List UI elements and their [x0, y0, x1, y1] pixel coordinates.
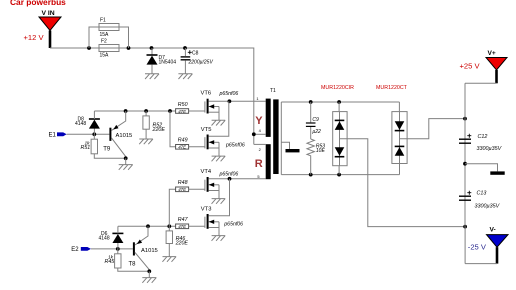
- wire +25V net: [400, 117, 467, 139]
- resistor R51 1k: [81, 134, 126, 158]
- power output V- -25V: [465, 227, 508, 264]
- svg-text:+25 V: +25 V: [460, 62, 481, 71]
- svg-text:E1: E1: [49, 132, 57, 138]
- transistor T9 A1015: [103, 111, 133, 170]
- transformer T1 pin numbers: [256, 96, 261, 179]
- svg-text:R: R: [255, 158, 263, 170]
- svg-text:+12 V: +12 V: [24, 33, 45, 42]
- svg-text:4: 4: [259, 128, 262, 133]
- wire secondary bottom: [281, 173, 399, 177]
- transformer T1 core: [273, 99, 278, 174]
- diode D8 4148: [75, 111, 100, 134]
- svg-text:F2: F2: [101, 39, 107, 45]
- svg-text:VT5: VT5: [201, 127, 212, 133]
- wire gate drive 1: [94, 109, 175, 147]
- diode D6 4148: [99, 226, 124, 249]
- rectifier D MUR1220CIR: [333, 102, 347, 175]
- resistor R47 47E: [176, 217, 189, 229]
- svg-text:1N5404: 1N5404: [159, 60, 177, 66]
- svg-text:3300µ35V: 3300µ35V: [475, 204, 501, 210]
- resistor R48 47E: [176, 180, 189, 192]
- svg-text:10E: 10E: [316, 148, 326, 154]
- transistor VT4 p65nf06: [201, 169, 239, 204]
- title Car powerbus: [10, 0, 66, 7]
- transformer T1 primary winding R: [255, 144, 271, 179]
- svg-text:C12: C12: [478, 134, 488, 140]
- wire VT3 drain: [209, 179, 230, 216]
- svg-text:R51: R51: [81, 145, 91, 151]
- svg-text:5: 5: [257, 174, 259, 179]
- transformer T1 label: [270, 88, 276, 94]
- svg-text:F1: F1: [100, 18, 106, 24]
- svg-text:2: 2: [259, 147, 261, 152]
- svg-text:R47: R47: [178, 217, 189, 223]
- svg-text:15A: 15A: [100, 32, 110, 38]
- power input V IN +12V: [24, 10, 62, 48]
- wire R49 to VT5 gate: [189, 146, 205, 148]
- svg-text:1: 1: [256, 96, 258, 101]
- svg-text:4148: 4148: [99, 236, 110, 242]
- svg-text:-25 V: -25 V: [468, 243, 487, 252]
- transformer T1 primary winding Y: [255, 99, 271, 137]
- transistor VT6 p65nf06: [201, 91, 239, 126]
- wire T1 pin4 centre tap: [252, 132, 266, 136]
- rectifier D MUR1220CT: [392, 102, 407, 175]
- svg-text:220E: 220E: [152, 127, 166, 133]
- svg-text:T9: T9: [103, 146, 111, 152]
- connector E1: [49, 132, 67, 138]
- transformer T1 secondary: [280, 102, 282, 175]
- transistor VT5 p65nf06: [201, 127, 245, 161]
- wire secondary top: [281, 100, 399, 104]
- svg-text:Y: Y: [255, 115, 263, 127]
- svg-text:47E: 47E: [178, 145, 186, 150]
- label MUR1220CT: [376, 85, 408, 91]
- svg-text:VT4: VT4: [201, 169, 212, 175]
- capacitor C13 3300u/35V: [459, 191, 501, 210]
- svg-text:C8: C8: [192, 50, 199, 56]
- svg-text:3300µ35V: 3300µ35V: [477, 146, 503, 152]
- svg-text:4148: 4148: [75, 121, 86, 127]
- svg-text:15A: 15A: [100, 53, 110, 59]
- svg-text:µ22: µ22: [312, 129, 321, 135]
- svg-text:V+: V+: [488, 50, 496, 57]
- wire R48 to VT4 gate: [189, 188, 205, 190]
- wire +12V rail: [50, 46, 254, 144]
- svg-text:MUR1220CIR: MUR1220CIR: [321, 85, 354, 91]
- wire midpoint to common bar: [465, 164, 505, 175]
- wire output stack: [463, 119, 467, 227]
- svg-text:Car powerbus: Car powerbus: [10, 0, 66, 7]
- diode D7 1N5404: [145, 48, 176, 79]
- wire E2 to T8 base: [91, 247, 133, 251]
- transistor VT3 p65nf06: [201, 206, 243, 240]
- svg-text:R48: R48: [178, 180, 188, 186]
- capacitor C8 2200u/25V: [178, 48, 213, 79]
- svg-text:V IN: V IN: [42, 10, 55, 17]
- resistor R46 220E: [162, 226, 188, 261]
- wire VT6 drain to T1 pin1: [209, 99, 266, 103]
- svg-text:T1: T1: [270, 88, 276, 94]
- fuse F2 15A: [99, 39, 119, 59]
- svg-text:47E: 47E: [178, 187, 186, 192]
- resistor R52 220E: [139, 111, 165, 144]
- svg-text:C13: C13: [477, 191, 487, 197]
- svg-text:p65nf06: p65nf06: [219, 91, 239, 97]
- svg-text:A1015: A1015: [116, 133, 133, 139]
- svg-text:R50: R50: [178, 102, 188, 108]
- wire T1 pin2: [254, 143, 266, 145]
- transistor T8 A1015: [129, 226, 158, 282]
- label MUR1220CIR: [321, 85, 354, 91]
- resistor R53 10E: [307, 139, 325, 175]
- svg-text:VT6: VT6: [201, 91, 212, 97]
- svg-text:220E: 220E: [175, 241, 189, 247]
- capacitor C12 3300u/35V: [459, 134, 503, 152]
- svg-text:VT3: VT3: [201, 206, 212, 212]
- wire VT5 drain: [209, 101, 229, 136]
- wire R47 to VT3 gate: [189, 225, 205, 227]
- connector E2: [71, 247, 91, 253]
- svg-text:2200µ/25V: 2200µ/25V: [188, 60, 214, 66]
- resistor R45 1k: [105, 249, 150, 271]
- capacitor C9 u22: [306, 102, 321, 139]
- wire R50 to VT6 gate: [189, 110, 205, 112]
- svg-text:R45: R45: [105, 259, 115, 265]
- svg-text:MUR1220CT: MUR1220CT: [376, 85, 408, 91]
- resistor R49 47E: [176, 138, 189, 150]
- wire secondary centre tap to common: [281, 142, 299, 152]
- svg-text:p65nf06: p65nf06: [219, 171, 239, 177]
- svg-text:47E: 47E: [178, 224, 186, 229]
- svg-text:p65nf06: p65nf06: [223, 222, 243, 228]
- wire -25V net: [340, 139, 468, 229]
- svg-text:E2: E2: [71, 247, 79, 253]
- wire gate drive 2: [118, 189, 176, 228]
- svg-text:R49: R49: [178, 138, 188, 144]
- svg-text:A1015: A1015: [141, 248, 158, 254]
- svg-text:T8: T8: [129, 262, 137, 268]
- svg-text:C9: C9: [312, 117, 319, 123]
- resistor R50 47E: [176, 102, 189, 114]
- svg-text:V-: V-: [490, 227, 496, 234]
- svg-text:p65nf06: p65nf06: [225, 143, 245, 149]
- svg-text:47E: 47E: [178, 109, 186, 114]
- power output V+ +25V: [460, 50, 508, 118]
- wire VT4 drain to T1 pin5: [209, 177, 266, 181]
- fuse F1 15A: [89, 18, 129, 49]
- wire E1 to T9 base: [67, 132, 110, 136]
